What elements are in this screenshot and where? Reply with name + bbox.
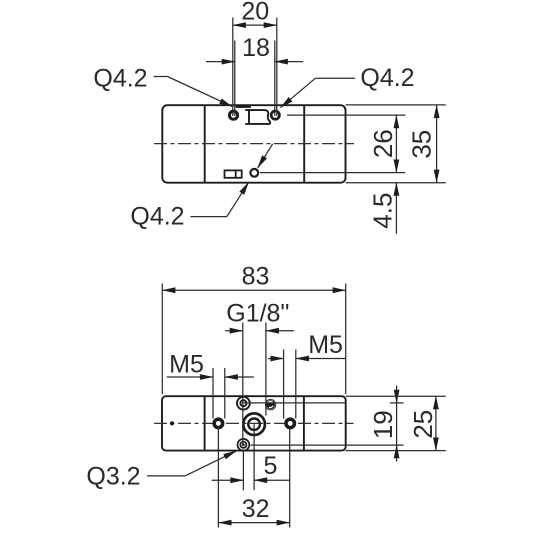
- dimension M5 left: [167, 368, 254, 419]
- dimension 18: [206, 41, 303, 117]
- dimension M5 right: [268, 350, 346, 419]
- svg-text:26: 26: [368, 129, 398, 158]
- dimension 19: [243, 386, 403, 462]
- leader Q4.2 top-right: [315, 77, 355, 79]
- svg-text:25: 25: [408, 410, 438, 439]
- hole M5 right: [286, 419, 295, 428]
- svg-text:G1/8": G1/8": [226, 300, 289, 328]
- hole M5 left: [214, 419, 223, 428]
- svg-text:M5: M5: [169, 350, 204, 378]
- body division line right: [303, 105, 305, 183]
- valve body (top view): [162, 105, 345, 183]
- small port rectangle detail: [225, 170, 242, 177]
- hole Q3.2 bottom: [238, 439, 250, 451]
- slot bar detail: [236, 106, 251, 108]
- pilot hole dot left: [170, 421, 174, 425]
- body division line right (bottom view): [303, 396, 305, 450]
- dimension 20: [233, 18, 277, 117]
- hole Q4.2 lower: [250, 169, 258, 177]
- svg-text:Q3.2: Q3.2: [86, 463, 140, 491]
- hole G1/8 center: [243, 413, 265, 435]
- svg-text:35: 35: [406, 130, 436, 159]
- body division line left: [204, 105, 206, 183]
- svg-text:4.5: 4.5: [368, 193, 398, 229]
- centerline (top view): [154, 143, 354, 145]
- valve body (bottom view): [162, 396, 346, 450]
- body division line left (bottom view): [204, 396, 206, 450]
- dimension 25: [346, 396, 446, 450]
- svg-text:Q4.2: Q4.2: [360, 64, 414, 92]
- dimension 26: [260, 115, 405, 173]
- svg-text:Q4.2: Q4.2: [93, 65, 147, 93]
- dimension 32: [218, 428, 289, 528]
- dimension 83: [162, 284, 345, 395]
- leader Q3.2: [147, 475, 185, 477]
- counterbored hole top: [237, 397, 250, 410]
- screw head dark hole: [265, 399, 275, 409]
- centerline (bottom view): [154, 422, 354, 424]
- svg-text:83: 83: [242, 263, 270, 291]
- leader Q4.2 top-left: [154, 76, 168, 78]
- svg-text:32: 32: [242, 495, 270, 523]
- svg-text:5: 5: [263, 452, 277, 480]
- svg-text:19: 19: [368, 410, 398, 439]
- dimension 5: [212, 424, 290, 490]
- svg-text:20: 20: [241, 0, 269, 26]
- svg-text:Q4.2: Q4.2: [130, 203, 184, 231]
- svg-text:18: 18: [242, 34, 270, 62]
- dimension 35: [346, 105, 446, 183]
- svg-text:M5: M5: [308, 331, 343, 359]
- hole Q4.2 top-left: [229, 111, 237, 119]
- manual override bracket detail: [245, 109, 270, 124]
- leader to lower hole from centerline: [258, 144, 273, 168]
- dimension 4.5: [395, 183, 397, 234]
- leader Q4.2 middle: [191, 216, 227, 218]
- hole Q4.2 top-right: [271, 111, 279, 119]
- dimension G1/8 arrows: [225, 323, 294, 445]
